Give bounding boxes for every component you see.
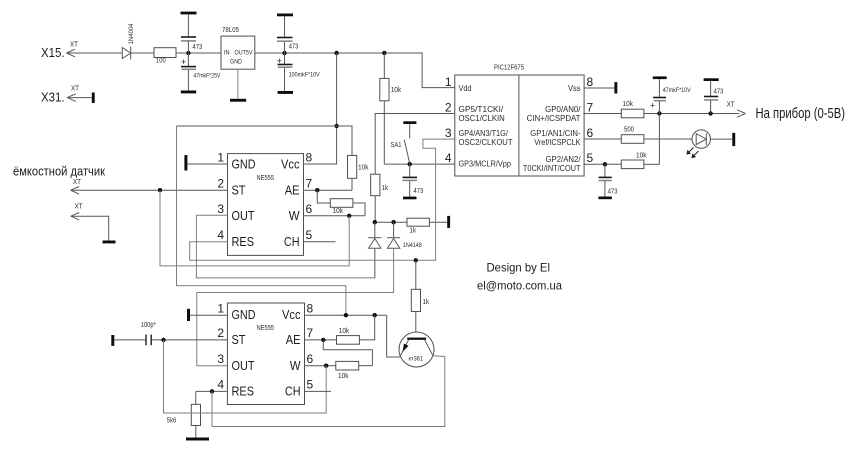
resistor R4 1k to terminal	[407, 218, 447, 234]
ground C5	[403, 197, 417, 200]
resistor R8 500	[621, 127, 692, 144]
svg-text:Vdd: Vdd	[459, 83, 472, 93]
svg-text:W: W	[290, 358, 301, 373]
svg-text:CH: CH	[284, 234, 300, 249]
svg-text:+: +	[650, 101, 655, 111]
ground C8	[598, 197, 612, 200]
wire GP2 pin5 stub	[583, 162, 621, 166]
node junction A dot	[186, 51, 190, 55]
svg-text:1: 1	[445, 75, 452, 89]
svg-text:1: 1	[217, 150, 224, 164]
resistor R6 10k AE-W	[317, 190, 365, 216]
svg-text:10k: 10k	[338, 373, 349, 380]
svg-text:473: 473	[414, 188, 424, 195]
terminal bar X31	[92, 93, 95, 104]
svg-text:10k: 10k	[339, 328, 350, 335]
wire Vcc NE555-2 row	[305, 313, 387, 317]
svg-text:T0CKI/INT/COUT: T0CKI/INT/COUT	[523, 163, 581, 173]
svg-text:GND: GND	[232, 307, 256, 322]
chip U4 NE555 lower	[217, 301, 313, 404]
wire CH stub NE555-2	[305, 390, 332, 392]
svg-text:SA1: SA1	[391, 142, 402, 149]
wire X15 to diode	[66, 52, 122, 54]
svg-text:473: 473	[608, 189, 618, 196]
svg-text:10k: 10k	[391, 87, 402, 94]
svg-text:1k: 1k	[382, 185, 389, 192]
svg-text:10k: 10k	[636, 153, 647, 160]
wire 5V outer loop to NE555-2 Vcc	[177, 126, 346, 315]
svg-text:1: 1	[217, 301, 224, 315]
capacitor C1 473	[181, 12, 203, 53]
svg-text:473: 473	[289, 44, 299, 51]
resistor R12 10k AE-W	[336, 361, 373, 379]
svg-text:5: 5	[306, 228, 313, 242]
svg-text:3: 3	[217, 352, 224, 366]
diode VD2 1N4148	[368, 222, 381, 278]
svg-text:7: 7	[307, 326, 314, 340]
svg-text:OUT: OUT	[232, 208, 255, 223]
svg-text:5: 5	[307, 378, 314, 392]
resistor R2 10k MCLR pullup	[380, 53, 402, 164]
svg-text:GP3/MCLR/Vpp: GP3/MCLR/Vpp	[459, 159, 512, 169]
resistor R11 10k AE pullup	[337, 315, 375, 344]
svg-text:10k: 10k	[358, 165, 369, 172]
diode VD3 1N4148	[387, 222, 422, 249]
wire GP5 pin2 to 1k	[375, 114, 455, 175]
svg-text:RES: RES	[232, 384, 255, 399]
svg-text:AE: AE	[286, 332, 301, 347]
svg-text:CIN+/ICSPDAT: CIN+/ICSPDAT	[527, 113, 582, 123]
svg-text:ёмкостной датчик: ёмкостной датчик	[13, 164, 105, 179]
svg-text:XT: XT	[71, 85, 80, 92]
svg-text:47mkF*25V: 47mkF*25V	[194, 73, 222, 80]
svg-text:8: 8	[306, 150, 313, 164]
svg-text:5: 5	[587, 151, 594, 165]
resistor R3 1k	[371, 174, 389, 222]
svg-text:OSC2/CLKOUT: OSC2/CLKOUT	[459, 137, 514, 147]
svg-text:2: 2	[217, 326, 224, 340]
wire diode summing row	[373, 220, 407, 224]
svg-text:На прибор (0-5В): На прибор (0-5В)	[756, 106, 846, 122]
LED HL1	[687, 130, 732, 158]
svg-text:78L05: 78L05	[222, 27, 239, 34]
terminal bar GND NE555-1	[184, 155, 187, 170]
svg-text:Vcc: Vcc	[282, 307, 301, 322]
chip U3 NE555 upper	[217, 150, 312, 255]
wire GND NE555-1	[187, 163, 227, 165]
svg-text:X31.: X31.	[41, 89, 65, 104]
svg-text:GND: GND	[230, 59, 242, 66]
svg-text:3: 3	[217, 202, 224, 216]
svg-text:2: 2	[217, 177, 224, 191]
resistor R1 100	[154, 48, 176, 65]
ground 78L05	[230, 99, 246, 102]
wire 78L05 GND lead	[237, 69, 239, 99]
wire CH stub NE555-1	[304, 241, 336, 243]
svg-text:OUT5V: OUT5V	[235, 50, 254, 57]
svg-text:ST: ST	[232, 183, 246, 198]
svg-text:8: 8	[307, 301, 314, 315]
node X15 arrow	[66, 49, 75, 57]
capacitor C2 47mkF*25V polarized	[181, 53, 221, 93]
svg-text:6: 6	[307, 352, 314, 366]
svg-text:4: 4	[217, 378, 224, 392]
node XT sensor arrow	[71, 179, 82, 194]
transistor VT1 KT361	[399, 332, 434, 367]
svg-text:100mkF*10V: 100mkF*10V	[289, 72, 321, 79]
wire output node row	[657, 111, 739, 115]
svg-text:10k: 10k	[623, 101, 634, 108]
resistor R13 1k base	[411, 260, 429, 337]
wire AE to W resistor link	[323, 340, 372, 366]
wire Vss pin8 stub	[583, 87, 614, 89]
svg-text:ST: ST	[232, 332, 246, 347]
svg-text:7: 7	[306, 177, 313, 191]
resistor R10 5k6	[167, 391, 201, 437]
wire OUT NE555-1 to VD2	[196, 215, 374, 278]
svg-text:CH: CH	[285, 384, 301, 399]
switch SA1	[391, 121, 417, 163]
svg-text:1N4148: 1N4148	[403, 242, 422, 249]
wire GP3 row	[384, 163, 455, 165]
svg-text:4: 4	[445, 151, 452, 165]
svg-text:OUT: OUT	[232, 358, 255, 373]
svg-text:XT: XT	[73, 179, 82, 186]
svg-text:4: 4	[217, 228, 224, 242]
wire GP0 pin7 stub	[583, 113, 621, 115]
ground R10	[186, 438, 209, 441]
ground XT stub	[103, 241, 116, 244]
svg-text:6: 6	[587, 126, 594, 140]
node rail junction C dot	[334, 51, 338, 55]
svg-text:100: 100	[156, 58, 166, 65]
svg-text:1N4004: 1N4004	[128, 23, 135, 44]
wire VD3 to NE555-2 OUT	[197, 248, 394, 366]
capacitor C7 473	[704, 78, 724, 113]
capacitor C8 473	[599, 164, 618, 196]
wire 5V loop to 10k AE	[177, 126, 353, 155]
svg-text:2: 2	[445, 100, 452, 114]
svg-text:Vcc: Vcc	[281, 156, 300, 171]
svg-text:10k: 10k	[333, 208, 344, 215]
wire GND NE555-2	[190, 314, 227, 316]
diode VD1 1N4004	[122, 23, 135, 59]
wire diode to R1	[131, 52, 154, 54]
wire GP1 pin6 stub	[583, 138, 621, 140]
terminal bar Vss	[614, 82, 617, 93]
regulator U1 78L05	[221, 27, 255, 69]
svg-text:Vref/ICSPCLK: Vref/ICSPCLK	[534, 137, 580, 147]
wire W NE555-1	[304, 214, 366, 218]
svg-text:47mkF*10V: 47mkF*10V	[663, 87, 692, 94]
wire W NE555-2	[305, 364, 336, 368]
svg-text:+: +	[181, 57, 186, 67]
svg-text:AE: AE	[285, 183, 300, 198]
terminal bar LED	[732, 133, 735, 146]
node rail junction D dot	[382, 51, 386, 55]
svg-text:W: W	[289, 208, 300, 223]
capacitor C4 100mkF*10V polarized	[277, 53, 321, 94]
wire pin5 to pin7 node	[658, 114, 660, 165]
capacitor C5 473 on MCLR	[403, 164, 424, 197]
wire AE NE555-2	[305, 338, 337, 342]
svg-text:Design by El: Design by El	[487, 261, 551, 275]
wire Vcc drop to NE555-1 pin8	[303, 53, 339, 164]
wire collector to RES NE555-2	[212, 356, 445, 427]
svg-text:NE555: NE555	[257, 175, 275, 182]
wire ST NE555-1 row	[71, 188, 228, 192]
svg-text:RES: RES	[232, 234, 255, 249]
svg-text:X15.: X15.	[41, 45, 65, 60]
svg-text:1k: 1k	[423, 299, 430, 306]
node junction B dot	[282, 51, 286, 55]
svg-text:XT: XT	[70, 42, 79, 49]
resistor R9 10k	[621, 153, 659, 169]
svg-text:IN: IN	[224, 50, 230, 57]
wire ST NE555-2	[152, 338, 228, 342]
wire W to ST loop NE555-1	[160, 190, 349, 266]
connector X31 label	[41, 85, 80, 104]
svg-text:PIC12F675: PIC12F675	[494, 65, 524, 72]
svg-text:el@moto.com.ua: el@moto.com.ua	[477, 279, 562, 293]
chip U2 PIC12F675	[445, 65, 594, 177]
svg-text:6: 6	[306, 202, 313, 216]
svg-text:473: 473	[193, 44, 203, 51]
resistor R7 10k	[621, 101, 659, 118]
wire W to ST loop NE555-2	[164, 340, 327, 413]
svg-text:500: 500	[624, 127, 634, 134]
svg-text:473: 473	[714, 89, 724, 96]
svg-text:Vss: Vss	[568, 83, 581, 93]
svg-text:OSC1/CLKIN: OSC1/CLKIN	[459, 113, 505, 123]
wire RES NE555-1 to GP4	[190, 139, 455, 262]
wire AE NE555-1	[304, 188, 353, 192]
svg-text:3: 3	[445, 126, 452, 140]
svg-text:GND: GND	[232, 156, 256, 171]
resistor R5 10k	[348, 155, 369, 190]
node X31 arrow and wire	[67, 94, 92, 102]
terminal bar R4	[447, 216, 450, 228]
svg-text:5k6: 5k6	[167, 418, 177, 425]
capacitor C6 47mkF*10V polarized	[650, 76, 691, 113]
svg-text:100p*: 100p*	[141, 322, 156, 329]
wire emitter to Vcc	[387, 315, 400, 357]
capacitor C3 473	[277, 14, 298, 54]
svg-text:NE555: NE555	[257, 325, 275, 332]
node SA1 junction dot	[408, 162, 412, 166]
node output arrow	[727, 102, 746, 118]
svg-text:XT: XT	[727, 102, 736, 109]
wire 78L05 out to PIC Vdd	[255, 53, 455, 88]
connector X15 label	[41, 42, 79, 61]
svg-text:1k: 1k	[410, 228, 417, 235]
wire R1 to 78L05	[176, 52, 221, 54]
svg-text:8: 8	[587, 75, 594, 89]
svg-text:кт361: кт361	[409, 356, 424, 363]
svg-text:7: 7	[587, 100, 594, 114]
node XT ground stub	[71, 204, 109, 241]
terminal bar GND NE555-2	[187, 309, 190, 321]
wire RES NE555-2	[196, 389, 228, 393]
capacitor C9 100p with terminal	[111, 322, 156, 346]
svg-text:XT: XT	[75, 204, 84, 211]
